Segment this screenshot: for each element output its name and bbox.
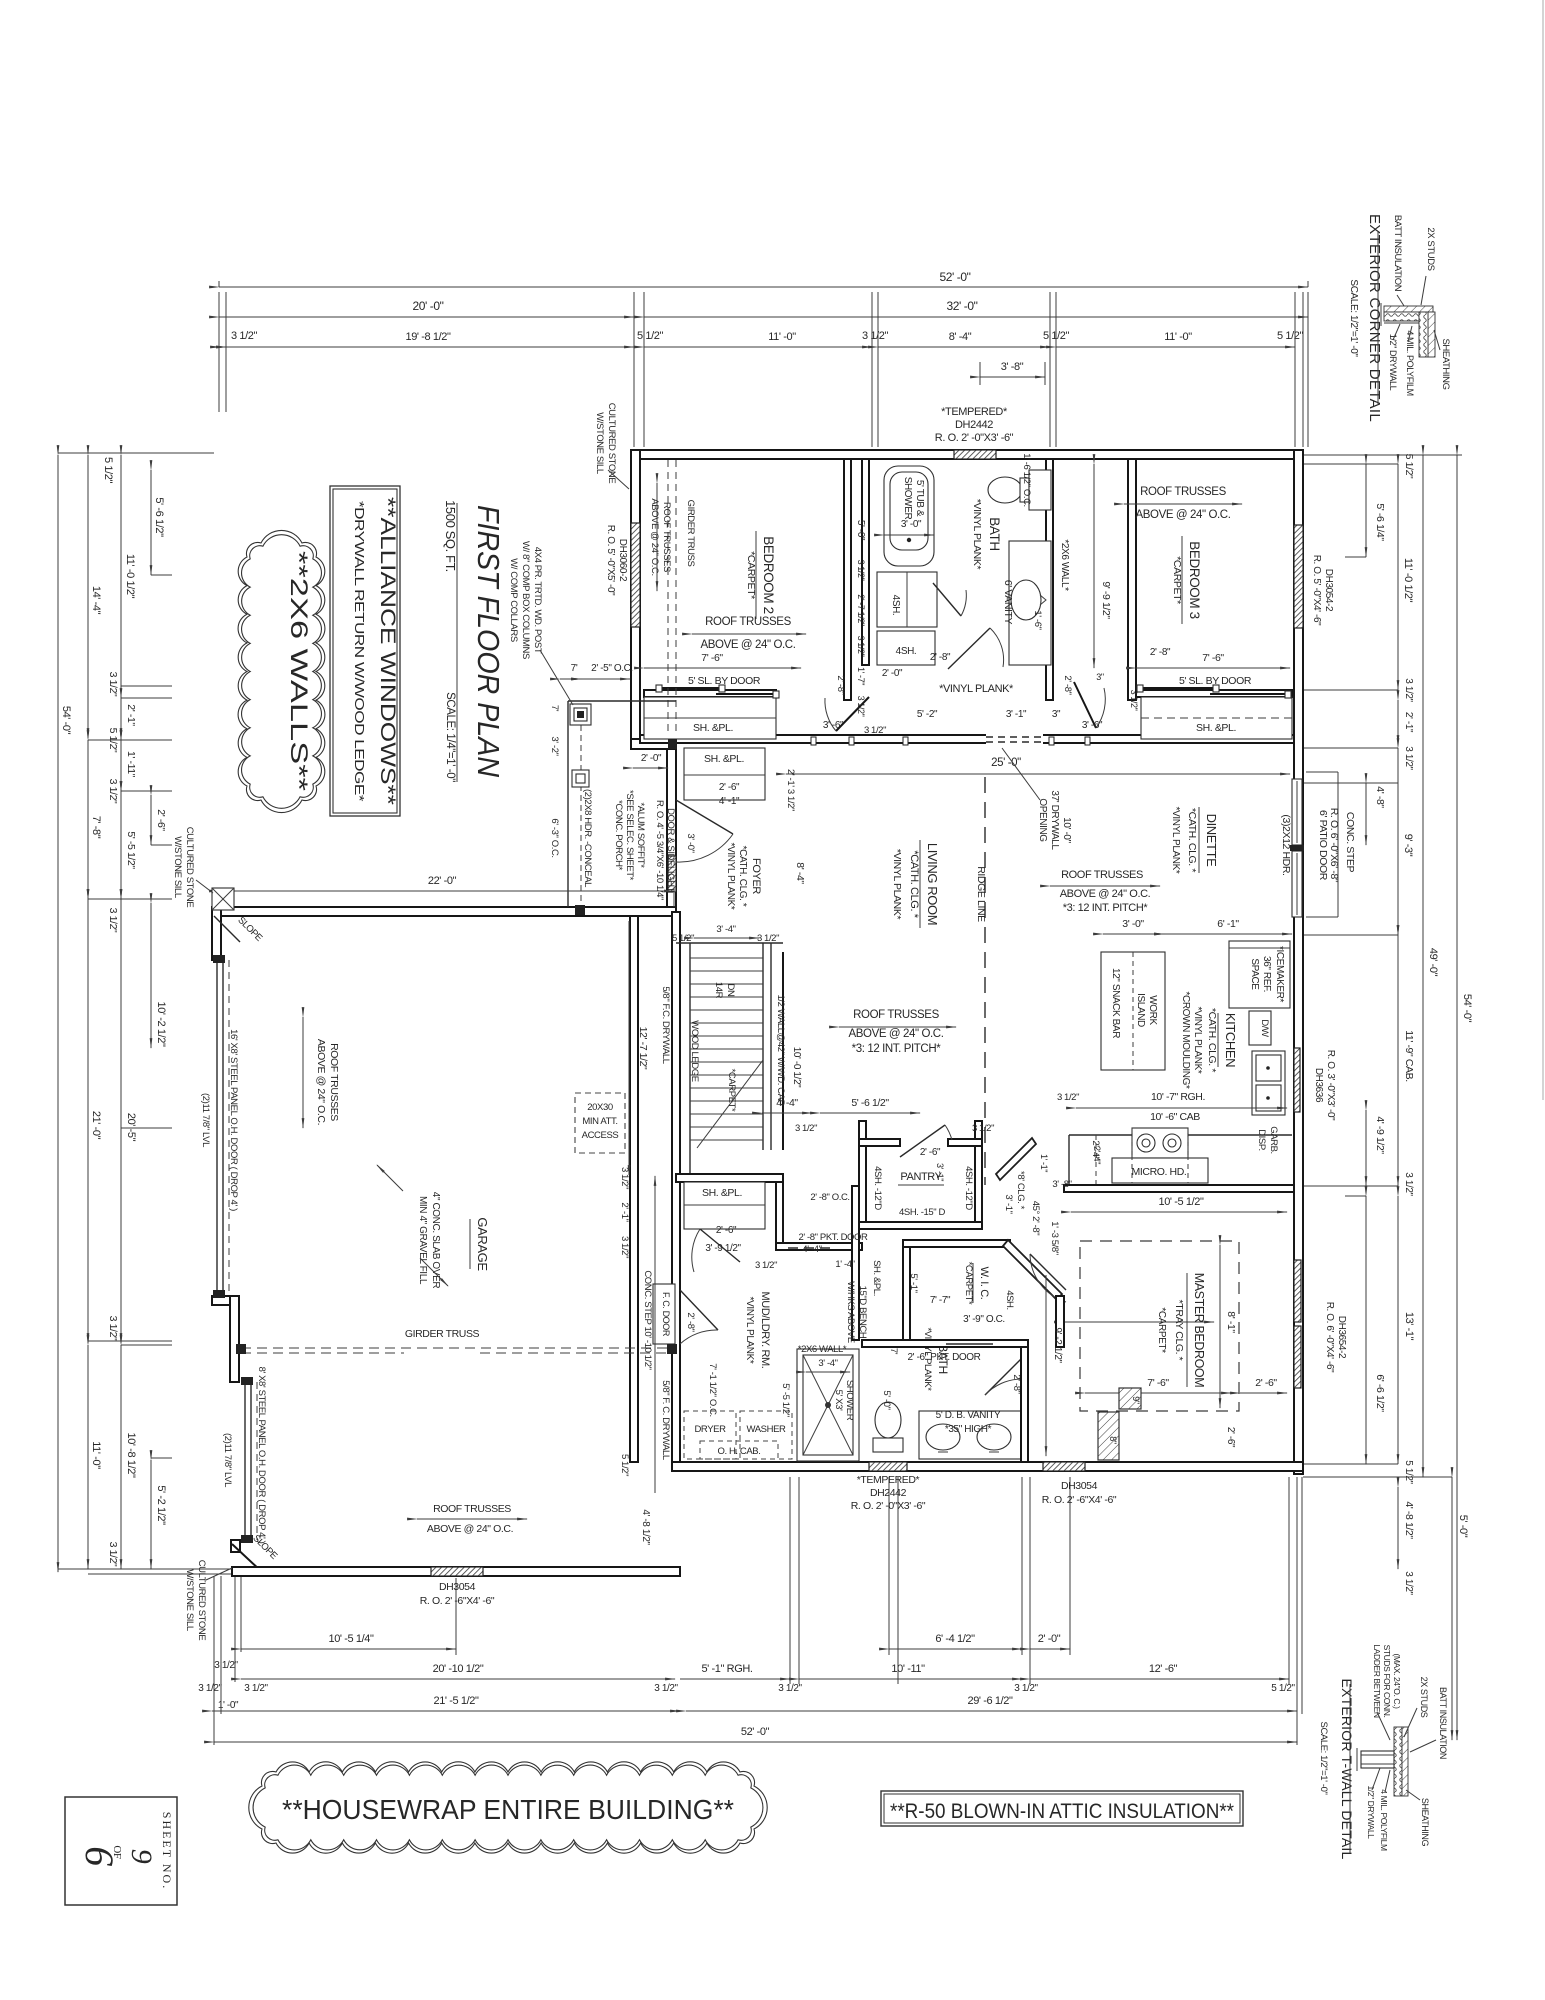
svg-text:MIN ATT.: MIN ATT. (582, 1116, 617, 1127)
svg-text:ISLAND: ISLAND (1135, 993, 1146, 1027)
svg-text:52' -0": 52' -0" (741, 1726, 770, 1738)
svg-text:6' -6 1/2": 6' -6 1/2" (1374, 1374, 1386, 1412)
svg-text:1' -4": 1' -4" (835, 1259, 854, 1270)
svg-text:3' -4": 3' -4" (818, 1358, 837, 1369)
svg-text:*8' CLG. *: *8' CLG. * (1015, 1171, 1026, 1210)
svg-text:10' -7" RGH.: 10' -7" RGH. (1151, 1091, 1205, 1103)
svg-text:29' -6 1/2": 29' -6 1/2" (967, 1695, 1013, 1707)
svg-text:**2X6 WALLS**: **2X6 WALLS** (285, 551, 312, 791)
svg-text:(2)2X8 HDR. -CONCEAL: (2)2X8 HDR. -CONCEAL (582, 789, 593, 887)
svg-text:5' -0": 5' -0" (855, 520, 866, 541)
svg-text:DH3054: DH3054 (1061, 1480, 1098, 1492)
svg-text:8' -4": 8' -4" (794, 862, 806, 884)
svg-text:45° 2' -8": 45° 2' -8" (1030, 1201, 1041, 1236)
svg-text:3": 3" (1052, 709, 1061, 720)
svg-text:R. O. 2' -6"X4' -6": R. O. 2' -6"X4' -6" (420, 1595, 495, 1607)
bath 2 (862, 1327, 1028, 1462)
svg-text:54' -0": 54' -0" (1461, 994, 1473, 1023)
svg-text:(2)11 7/8" LVL: (2)11 7/8" LVL (200, 1093, 211, 1147)
svg-text:ABOVE @ 24" O.C.: ABOVE @ 24" O.C. (849, 1028, 944, 1040)
svg-text:4' -1": 4' -1" (719, 796, 740, 807)
svg-text:3": 3" (1096, 672, 1104, 682)
svg-text:SHOWER: SHOWER (844, 1380, 855, 1421)
svg-text:*ALUM SOFFIT*: *ALUM SOFFIT* (635, 802, 646, 868)
svg-text:W. I. C.: W. I. C. (978, 1267, 990, 1300)
svg-text:ABOVE @ 24" O.C.: ABOVE @ 24" O.C. (1060, 888, 1151, 900)
svg-text:3' -2": 3' -2" (549, 736, 560, 755)
svg-text:19' -8 1/2": 19' -8 1/2" (405, 331, 451, 343)
svg-text:DINETTE: DINETTE (1204, 814, 1219, 868)
svg-text:5 1/2": 5 1/2" (637, 330, 663, 342)
svg-text:4SH. -12"D: 4SH. -12"D (963, 1166, 974, 1210)
svg-text:9' -9 1/2": 9' -9 1/2" (1100, 581, 1112, 619)
svg-text:W/ COMP COLLARS: W/ COMP COLLARS (508, 558, 519, 642)
svg-text:9: 9 (125, 1849, 158, 1864)
svg-text:8' X8' STEEL PANEL O.H. DOOR: 8' X8' STEEL PANEL O.H. DOOR ( DROP 4' ) (256, 1367, 267, 1544)
svg-text:5 1/2": 5 1/2" (1271, 1683, 1295, 1694)
svg-text:DN: DN (725, 984, 736, 997)
svg-text:5' SL. BY DOOR: 5' SL. BY DOOR (1179, 675, 1252, 687)
svg-text:DH3054: DH3054 (439, 1581, 476, 1593)
svg-text:12" SNACK BAR: 12" SNACK BAR (1110, 968, 1121, 1038)
svg-text:3 1/2": 3 1/2" (107, 1542, 119, 1567)
svg-text:5' -0": 5' -0" (881, 1390, 892, 1409)
svg-text:SCALE: 1/4"=1' -0": SCALE: 1/4"=1' -0" (444, 692, 456, 782)
svg-text:11' -0 1/2": 11' -0 1/2" (1402, 558, 1414, 603)
svg-text:5/8" F. C. DRYWALL: 5/8" F. C. DRYWALL (660, 1380, 671, 1460)
ALLIANCE WINDOWS box (330, 486, 400, 816)
svg-text:2' -7 1/2": 2' -7 1/2" (856, 594, 866, 626)
svg-text:WORK: WORK (1147, 995, 1158, 1025)
svg-text:ROOF TRUSSES: ROOF TRUSSES (328, 1043, 340, 1121)
svg-text:LADDER BETWEEN: LADDER BETWEEN (1372, 1644, 1382, 1718)
svg-text:GARB.: GARB. (1268, 1126, 1279, 1154)
svg-text:W/STONE SILL: W/STONE SILL (172, 836, 183, 898)
svg-text:*VINYL PLANK*: *VINYL PLANK* (971, 499, 983, 570)
svg-text:*35" HIGH*: *35" HIGH* (945, 1424, 992, 1435)
main body interior (654, 748, 806, 910)
svg-text:5' D. B. VANITY: 5' D. B. VANITY (936, 1410, 1001, 1421)
svg-text:3' -0": 3' -0" (1122, 918, 1144, 930)
svg-text:3 1/2": 3 1/2" (972, 1123, 994, 1134)
svg-text:2' -1": 2' -1" (619, 1202, 630, 1221)
svg-text:MICRO. HD.: MICRO. HD. (1132, 1166, 1187, 1178)
svg-text:15"D BENCH: 15"D BENCH (857, 1286, 868, 1339)
svg-text:3 1/2": 3 1/2" (1129, 690, 1139, 711)
svg-text:SH. &PL.: SH. &PL. (702, 1187, 742, 1199)
svg-text:R. O. 3' -0"X3' -0": R. O. 3' -0"X3' -0" (1325, 1050, 1336, 1121)
svg-text:3' -1": 3' -1" (1006, 709, 1027, 720)
svg-text:4' -4": 4' -4" (802, 1244, 821, 1255)
svg-text:13' -1": 13' -1" (1403, 1312, 1415, 1341)
hall/pantry (762, 1097, 1048, 1270)
svg-text:SCALE: 1/2"=1' -0": SCALE: 1/2"=1' -0" (1348, 279, 1359, 357)
svg-text:22' -0": 22' -0" (428, 875, 457, 887)
svg-text:*VINYL PLANK*: *VINYL PLANK* (1192, 1007, 1203, 1074)
svg-text:10' -8 1/2": 10' -8 1/2" (125, 1432, 137, 1478)
svg-text:3 1/2": 3 1/2" (856, 696, 866, 717)
svg-text:3' -0": 3' -0" (685, 833, 696, 852)
svg-text:3 1/2": 3 1/2" (755, 1260, 777, 1271)
svg-text:ABOVE @ 24" O.C.: ABOVE @ 24" O.C. (427, 1523, 513, 1535)
svg-text:GARAGE: GARAGE (475, 1217, 490, 1271)
svg-text:4SH. -12"D: 4SH. -12"D (872, 1166, 883, 1210)
svg-text:WOOD LEDGE: WOOD LEDGE (689, 1020, 700, 1082)
svg-text:WASHER: WASHER (747, 1424, 786, 1435)
svg-text:3 1/2": 3 1/2" (231, 330, 257, 342)
svg-text:LIVING ROOM: LIVING ROOM (925, 843, 940, 925)
svg-text:*CARPET*: *CARPET* (745, 551, 757, 599)
svg-text:20' -10 1/2": 20' -10 1/2" (433, 1663, 484, 1675)
svg-text:6' PATIO DOOR: 6' PATIO DOOR (1317, 810, 1329, 881)
svg-text:5 1/2": 5 1/2" (1277, 330, 1303, 342)
living room labels (786, 748, 1290, 1185)
dinette / kitchen (1050, 779, 1304, 1212)
svg-text:5' -6 1/2": 5' -6 1/2" (153, 497, 165, 537)
svg-text:5/8" F.C. DRYWALL: 5/8" F.C. DRYWALL (660, 986, 671, 1063)
svg-text:2' -8": 2' -8" (835, 675, 846, 694)
garage (172, 827, 677, 1641)
svg-text:5 1/2": 5 1/2" (1403, 454, 1415, 479)
svg-text:2' -6": 2' -6" (1225, 1427, 1236, 1448)
svg-text:11' -0 1/2": 11' -0 1/2" (124, 554, 136, 599)
svg-text:*TEMPERED*: *TEMPERED* (941, 406, 1008, 418)
svg-text:4 MIL. POLYFILM: 4 MIL. POLYFILM (1379, 1789, 1389, 1851)
svg-text:ABOVE @ 24" O.C.: ABOVE @ 24" O.C. (701, 639, 796, 651)
svg-text:**ALLIANCE WINDOWS**: **ALLIANCE WINDOWS** (376, 497, 399, 805)
svg-text:11' -0": 11' -0" (90, 1441, 102, 1469)
svg-text:3 1/2": 3 1/2" (1403, 746, 1414, 770)
svg-text:OPENING: OPENING (1037, 798, 1048, 842)
master bedroom (851, 1241, 1301, 1512)
svg-text:10' -0 1/2": 10' -0 1/2" (791, 1047, 802, 1088)
svg-text:SH. &PL.: SH. &PL. (1196, 722, 1236, 734)
svg-text:*VINYL PLANK*: *VINYL PLANK* (1170, 807, 1181, 874)
svg-text:4SH.: 4SH. (1004, 1290, 1015, 1310)
svg-text:5 1/2": 5 1/2" (672, 933, 694, 944)
svg-text:**R-50 BLOWN-IN ATTIC INSULATI: **R-50 BLOWN-IN ATTIC INSULATION** (890, 1800, 1234, 1823)
svg-text:5' -5 1/2": 5' -5 1/2" (780, 1383, 791, 1416)
svg-text:9' -2 1/2": 9' -2 1/2" (1052, 1327, 1063, 1363)
svg-text:5' X3': 5' X3' (833, 1390, 844, 1411)
bedroom wing interior walls (640, 459, 1294, 745)
svg-text:5 1/2": 5 1/2" (1403, 1460, 1414, 1484)
svg-text:3 1/2": 3 1/2" (795, 1123, 817, 1134)
svg-text:1' -11": 1' -11" (125, 751, 137, 778)
left dimension chain (58, 453, 232, 1574)
svg-text:9' -3": 9' -3" (1402, 834, 1414, 857)
svg-text:10' -0": 10' -0" (1061, 817, 1072, 843)
porch (508, 403, 677, 915)
exterior walls: bedroom wing (212, 450, 1303, 1576)
svg-text:2' -8": 2' -8" (685, 1312, 696, 1331)
svg-text:OF: OF (111, 1845, 123, 1859)
svg-text:5' -2": 5' -2" (917, 709, 938, 720)
svg-text:SH. &PL.: SH. &PL. (693, 722, 733, 734)
svg-text:3' -4": 3' -4" (716, 924, 735, 935)
svg-text:2' -8": 2' -8" (1062, 675, 1073, 694)
svg-text:20' -5": 20' -5" (125, 1113, 137, 1142)
svg-text:DH3054-2: DH3054-2 (1323, 569, 1334, 612)
svg-text:EXTERIOR T-WALL DETAIL: EXTERIOR T-WALL DETAIL (1339, 1679, 1355, 1860)
svg-text:*CARPET*: *CARPET* (1171, 556, 1183, 604)
svg-text:2X STUDS: 2X STUDS (1425, 227, 1436, 270)
svg-text:3' -8": 3' -8" (1001, 361, 1024, 373)
svg-text:3 1/2": 3 1/2" (1403, 1571, 1414, 1595)
svg-text:DISP.: DISP. (1256, 1129, 1267, 1151)
svg-text:BEDROOM 2: BEDROOM 2 (761, 536, 776, 613)
svg-text:SH. &PL.: SH. &PL. (704, 753, 744, 765)
svg-text:2' -8" O.C.: 2' -8" O.C. (810, 1192, 849, 1203)
svg-text:*VINYL PLANK*: *VINYL PLANK* (744, 1297, 755, 1364)
svg-text:2' -6": 2' -6" (719, 782, 740, 793)
svg-text:3' -9" O.C.: 3' -9" O.C. (963, 1314, 1005, 1325)
svg-text:F. C. DOOR: F. C. DOOR (661, 1292, 671, 1337)
svg-text:2' -4": 2' -4" (1092, 1146, 1102, 1164)
svg-text:*2X6 WALL*: *2X6 WALL* (798, 1344, 847, 1355)
svg-text:14' -4": 14' -4" (90, 586, 102, 615)
svg-text:3 1/2": 3 1/2" (107, 908, 119, 933)
exterior walls: main body bottom (672, 1462, 1303, 1471)
svg-text:*CATH. CLG. *: *CATH. CLG. * (1206, 1008, 1218, 1072)
svg-text:DH2442: DH2442 (955, 419, 993, 431)
svg-text:8": 8" (1108, 1436, 1118, 1444)
svg-text:R. O. 5' -0"X5' -0": R. O. 5' -0"X5' -0" (605, 525, 616, 596)
svg-text:ACCESS: ACCESS (582, 1130, 619, 1141)
svg-text:2' -0": 2' -0" (882, 668, 903, 679)
svg-text:11' -9" CAB.: 11' -9" CAB. (1403, 1030, 1415, 1082)
svg-text:3 1/2": 3 1/2" (1014, 1683, 1038, 1694)
svg-text:3 1/2": 3 1/2" (778, 1683, 802, 1694)
bottom dimension chains (198, 1477, 1302, 1745)
svg-text:GIRDER TRUSS: GIRDER TRUSS (685, 500, 696, 567)
svg-text:2' -6" PKT. DOOR: 2' -6" PKT. DOOR (908, 1352, 981, 1363)
svg-text:3 1/2": 3 1/2" (862, 330, 888, 342)
svg-text:BATH: BATH (987, 517, 1002, 550)
svg-text:*VINYL PLANK*: *VINYL PLANK* (939, 683, 1014, 695)
svg-text:2' -1": 2' -1" (125, 704, 137, 726)
svg-text:SHOWER: SHOWER (902, 477, 913, 520)
svg-text:3 1/2": 3 1/2" (619, 1167, 630, 1189)
svg-text:6' -4 1/2": 6' -4 1/2" (935, 1633, 975, 1645)
svg-text:1/2" DRYWALL: 1/2" DRYWALL (1388, 334, 1398, 391)
svg-text:GIRDER TRUSS: GIRDER TRUSS (405, 1328, 480, 1340)
svg-text:3 1/2": 3 1/2" (654, 1683, 678, 1694)
svg-text:4' -8 1/2": 4' -8 1/2" (1403, 1501, 1415, 1539)
svg-text:CULTURED STONE: CULTURED STONE (196, 1560, 207, 1641)
svg-text:SHEATHING: SHEATHING (1420, 1798, 1430, 1847)
svg-text:*CROWN MOULDING*: *CROWN MOULDING* (1180, 992, 1191, 1089)
svg-text:5 1/2": 5 1/2" (619, 1454, 630, 1476)
svg-text:8' -1": 8' -1" (1225, 1311, 1237, 1333)
2X6 WALLS cloud (238, 530, 325, 812)
svg-text:4 MIL. POLYFILM: 4 MIL. POLYFILM (1405, 330, 1415, 395)
svg-text:1/2 WALL@42" W/WD. CAP: 1/2 WALL@42" W/WD. CAP (775, 994, 786, 1105)
svg-text:36" REF.: 36" REF. (1261, 956, 1272, 992)
svg-text:14R: 14R (713, 982, 724, 999)
svg-text:2' -8": 2' -8" (1150, 647, 1171, 658)
svg-text:3' -9 1/2": 3' -9 1/2" (705, 1243, 741, 1254)
mud room area (619, 1174, 882, 1546)
svg-text:1' -7": 1' -7" (856, 667, 866, 685)
svg-text:**HOUSEWRAP ENTIRE BUILDING**: **HOUSEWRAP ENTIRE BUILDING** (282, 1794, 734, 1825)
svg-text:2' -6": 2' -6" (155, 809, 167, 831)
svg-text:*3: 12 INT. PITCH*: *3: 12 INT. PITCH* (1063, 902, 1149, 914)
svg-text:R. O. 4' -5 3/4"X6' -10 1/4": R. O. 4' -5 3/4"X6' -10 1/4" (654, 800, 665, 900)
svg-text:3 1/2": 3 1/2" (107, 1316, 119, 1341)
svg-text:*2X6 WALL*: *2X6 WALL* (1059, 539, 1070, 591)
svg-text:MASTER BEDROOM: MASTER BEDROOM (1192, 1273, 1206, 1388)
svg-text:7' -1 1/2" O.C.: 7' -1 1/2" O.C. (707, 1363, 718, 1417)
svg-text:7' -6": 7' -6" (1202, 652, 1224, 664)
svg-text:6' -3" O.C.: 6' -3" O.C. (549, 818, 560, 857)
svg-text:3 1/2": 3 1/2" (856, 560, 866, 581)
titles (443, 500, 506, 782)
svg-text:*CATH. CLG. *: *CATH. CLG. * (1186, 808, 1198, 872)
svg-text:16' X8' STEEL PANEL O.H. DOO: 16' X8' STEEL PANEL O.H. DOOR ( DROP 4' … (228, 1029, 239, 1211)
svg-text:2' -6": 2' -6" (716, 1225, 737, 1236)
svg-text:5' -6 1/2": 5' -6 1/2" (851, 1097, 889, 1109)
svg-text:10' -2 1/2": 10' -2 1/2" (155, 1001, 167, 1047)
svg-text:3 1/2": 3 1/2" (107, 779, 119, 804)
svg-text:SCALE: 1/2"=1' -0": SCALE: 1/2"=1' -0" (1318, 1722, 1329, 1795)
svg-text:5' -0": 5' -0" (1457, 1515, 1469, 1538)
svg-text:DH3060-2: DH3060-2 (617, 539, 628, 582)
svg-text:R. O. 2' -6"X4' -6": R. O. 2' -6"X4' -6" (1042, 1494, 1117, 1506)
svg-text:*TRAY CLG. *: *TRAY CLG. * (1173, 1300, 1185, 1361)
svg-text:2' -0": 2' -0" (1038, 1633, 1061, 1645)
svg-text:4SH. -15" D: 4SH. -15" D (899, 1207, 946, 1218)
svg-text:MUD/LDRY. RM.: MUD/LDRY. RM. (759, 1292, 771, 1369)
svg-text:*CATH. CLG. *: *CATH. CLG. * (737, 846, 748, 907)
svg-text:4' -8": 4' -8" (1374, 786, 1386, 808)
svg-text:11' -0": 11' -0" (1164, 331, 1192, 343)
svg-text:R. O. 5' -0"X4' -6": R. O. 5' -0"X4' -6" (1311, 555, 1322, 626)
svg-text:1' -6 1/2" O.C.: 1' -6 1/2" O.C. (1021, 453, 1032, 507)
svg-text:7': 7' (549, 705, 560, 712)
svg-text:FOYER: FOYER (750, 858, 762, 894)
svg-text:O. H. CAB.: O. H. CAB. (718, 1446, 761, 1457)
svg-text:2' -5" O.C.: 2' -5" O.C. (591, 663, 633, 674)
svg-text:(2)11 7/8" LVL: (2)11 7/8" LVL (222, 1433, 233, 1487)
svg-text:9": 9" (1131, 1396, 1141, 1404)
svg-text:*TEMPERED*: *TEMPERED* (857, 1474, 920, 1486)
sliding closet doors + windows bedroom wing (605, 450, 1303, 735)
svg-text:20' -0": 20' -0" (412, 299, 443, 313)
svg-text:2' -0": 2' -0" (641, 753, 662, 764)
svg-text:12' -6": 12' -6" (1149, 1663, 1178, 1675)
svg-text:4SH.: 4SH. (896, 646, 917, 657)
svg-text:5' TUB &: 5' TUB & (914, 480, 925, 517)
svg-text:10' -11": 10' -11" (891, 1663, 925, 1675)
svg-text:2' -1": 2' -1" (1403, 712, 1414, 733)
svg-text:R. O. 2' -0"X3' -6": R. O. 2' -0"X3' -6" (935, 432, 1014, 444)
svg-text:R. O. 6' -0"X4' -6": R. O. 6' -0"X4' -6" (1324, 1302, 1335, 1373)
svg-text:4SH.: 4SH. (890, 595, 901, 616)
svg-text:DH2442: DH2442 (870, 1487, 907, 1499)
svg-text:*ICEMAKER*: *ICEMAKER* (1274, 946, 1285, 1003)
svg-text:7' -7": 7' -7" (930, 1295, 951, 1306)
svg-text:ROOF TRUSSES: ROOF TRUSSES (1140, 486, 1226, 498)
svg-text:7' -8": 7' -8" (90, 816, 102, 839)
svg-text:*CARPET*: *CARPET* (726, 1069, 737, 1112)
svg-text:BATT INSULATION: BATT INSULATION (1392, 215, 1403, 292)
W.I.C. (903, 1138, 1214, 1456)
svg-text:*CONC. PORCH*: *CONC. PORCH* (613, 800, 624, 870)
svg-text:5' -5 1/2": 5' -5 1/2" (125, 831, 137, 869)
svg-text:2' -8" PKT. DOOR: 2' -8" PKT. DOOR (799, 1232, 869, 1243)
svg-text:5' -6 1/4": 5' -6 1/4" (1374, 503, 1386, 541)
svg-text:DH3636: DH3636 (1313, 1068, 1324, 1103)
svg-text:3 1/2": 3 1/2" (198, 1683, 222, 1694)
svg-text:W/STONE SILL: W/STONE SILL (184, 1569, 195, 1631)
svg-text:DRYER: DRYER (694, 1424, 726, 1435)
svg-text:ROOF TRUSSES: ROOF TRUSSES (853, 1009, 939, 1021)
svg-text:ROOF TRUSSES: ROOF TRUSSES (661, 502, 672, 572)
svg-text:SHEET NO.: SHEET NO. (160, 1812, 174, 1890)
sheet number box (65, 1797, 177, 1905)
right dimension chain (1280, 454, 1473, 1740)
svg-text:MIN 4" GRAVEL FILL: MIN 4" GRAVEL FILL (417, 1196, 428, 1285)
svg-text:CONC. STEP 10' -10 1/2": CONC. STEP 10' -10 1/2" (642, 1270, 653, 1369)
svg-text:CONC. STEP: CONC. STEP (1344, 812, 1356, 873)
svg-text:W/STONE SILL: W/STONE SILL (594, 412, 605, 474)
svg-text:EXTERIOR CORNER DETAIL: EXTERIOR CORNER DETAIL (1366, 214, 1383, 422)
svg-text:3' -6": 3' -6" (823, 720, 844, 731)
svg-text:5' SL. BY DOOR: 5' SL. BY DOOR (688, 675, 761, 687)
svg-text:49' -0": 49' -0" (1427, 948, 1439, 977)
svg-text:3' -6": 3' -6" (1082, 720, 1103, 731)
svg-text:STUDS FOR CONN.: STUDS FOR CONN. (1382, 1645, 1392, 1718)
svg-text:ROOF TRUSSES: ROOF TRUSSES (1061, 869, 1143, 881)
stairs (629, 921, 802, 1178)
garage walls (212, 907, 676, 916)
svg-text:*VINYL PLANK*: *VINYL PLANK* (891, 849, 903, 920)
HOUSEWRAP cloud (249, 1762, 767, 1853)
svg-text:1' -1": 1' -1" (1039, 1154, 1049, 1172)
svg-text:3' -1": 3' -1" (1003, 1194, 1014, 1213)
svg-text:W/ 8" COMP BOX COLUMNS: W/ 8" COMP BOX COLUMNS (520, 541, 531, 659)
svg-text:3 1/2": 3 1/2" (856, 636, 866, 657)
svg-text:5' -1": 5' -1" (908, 1273, 919, 1292)
svg-text:DH3654-2: DH3654-2 (1336, 1316, 1347, 1359)
svg-text:KITCHEN: KITCHEN (1223, 1013, 1238, 1067)
svg-text:10' -5 1/2": 10' -5 1/2" (1158, 1196, 1204, 1208)
top dimension chain (219, 270, 1308, 447)
svg-text:3 1/2": 3 1/2" (619, 1236, 630, 1258)
svg-text:4' -9 1/2": 4' -9 1/2" (1374, 1116, 1386, 1154)
svg-text:*CARPET*: *CARPET* (963, 1262, 974, 1305)
svg-text:2' -6": 2' -6" (1255, 1377, 1277, 1389)
svg-text:DOOR & SIDELIGHT: DOOR & SIDELIGHT (665, 808, 676, 892)
svg-text:6' VANITY: 6' VANITY (1002, 580, 1014, 625)
svg-text:32' -0": 32' -0" (946, 299, 977, 313)
svg-text:3 1/2": 3 1/2" (107, 672, 119, 697)
svg-text:ROOF TRUSSES: ROOF TRUSSES (705, 616, 791, 628)
svg-text:*DRYWALL RETURN W/WOOD LEDGE*: *DRYWALL RETURN W/WOOD LEDGE* (352, 501, 367, 801)
svg-text:D/W: D/W (1259, 1019, 1270, 1037)
svg-text:3' -1": 3' -1" (935, 1163, 945, 1181)
svg-text:21' -0": 21' -0" (90, 1111, 102, 1140)
svg-text:4' -8 1/2": 4' -8 1/2" (640, 1509, 651, 1545)
svg-text:SHEATHING: SHEATHING (1440, 338, 1451, 389)
svg-text:3' -8": 3' -8" (1052, 1179, 1071, 1190)
svg-text:3 1/2": 3 1/2" (757, 933, 779, 944)
svg-text:6' -1": 6' -1" (1217, 918, 1239, 930)
svg-text:5' -2 1/2": 5' -2 1/2" (155, 1485, 167, 1525)
svg-text:ABOVE @ 24" O.C.: ABOVE @ 24" O.C. (1136, 509, 1231, 521)
svg-text:1/2" DRYWALL: 1/2" DRYWALL (1366, 1785, 1376, 1839)
